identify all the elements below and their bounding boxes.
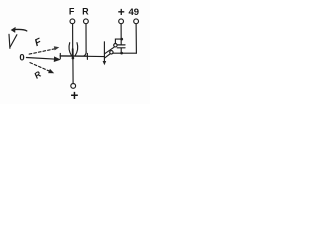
lever position line tilted	[10, 35, 17, 47]
svg-text:R: R	[82, 7, 89, 17]
bar end stop left	[59, 53, 61, 58]
wire 49 pin down	[135, 24, 137, 53]
junction dot below bar	[72, 57, 75, 60]
position ray 0 arrowhead	[54, 56, 61, 62]
svg-text:+: +	[71, 88, 79, 103]
lever icon arc arrowhead	[11, 27, 16, 33]
movable bridge bar	[60, 55, 87, 57]
svg-text:+: +	[118, 5, 125, 19]
terminal +	[119, 19, 124, 24]
wire F pin down	[72, 24, 74, 50]
svg-text:F: F	[69, 7, 75, 17]
capacitor plate top	[117, 44, 125, 46]
contact pin F thick tip	[72, 49, 74, 57]
wire bar to switch arm	[88, 55, 105, 57]
svg-text:49: 49	[129, 7, 140, 18]
terminal bottom +	[71, 84, 76, 89]
contact foot R	[84, 52, 86, 56]
wire upper contact to + junction	[115, 39, 121, 43]
position ray F dashed	[29, 49, 55, 54]
position ray F arrowhead	[54, 46, 60, 50]
terminal F	[70, 19, 75, 24]
capacitor plate bottom	[117, 47, 125, 49]
switch blade	[105, 47, 115, 54]
wire R pin down	[85, 24, 87, 52]
junction dot on bus	[120, 52, 123, 55]
svg-text:0: 0	[19, 52, 24, 63]
bus wire to 49	[113, 52, 136, 54]
wire capacitor to bus	[120, 48, 122, 53]
terminal 49	[134, 19, 139, 24]
switch arm vertical	[103, 42, 105, 61]
contact spring left	[69, 43, 71, 56]
wire + pin down	[120, 24, 122, 45]
contact upper	[114, 44, 117, 47]
switch arm arrowhead	[103, 61, 107, 65]
svg-text:F: F	[33, 36, 44, 49]
junction dot top	[120, 38, 123, 41]
lever position line vertical	[8, 34, 11, 48]
terminal R	[84, 19, 89, 24]
contact lower	[110, 51, 113, 54]
position ray R dashed	[30, 63, 50, 72]
wire down to bottom terminal	[72, 58, 74, 83]
svg-text:R: R	[32, 68, 43, 80]
contact spring right	[75, 43, 77, 56]
switch blade second	[105, 54, 110, 58]
position ray 0 shaft	[26, 58, 54, 60]
lever icon arc arrow	[14, 29, 27, 31]
bar end stop right	[86, 53, 88, 59]
position ray R arrowhead	[48, 69, 54, 73]
